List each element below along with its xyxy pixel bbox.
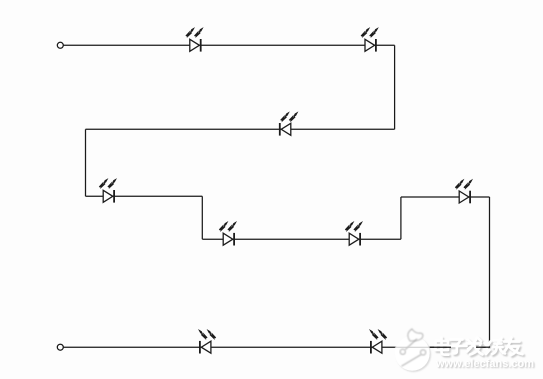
- watermark title 电子发烧友 (stroke skeleton, embossed): [436, 338, 525, 357]
- LED D5: [223, 233, 234, 246]
- watermark url www.elecfans.com: [435, 358, 535, 371]
- terminal top-left: [57, 42, 63, 48]
- wire V5 corner stub: [489, 346, 491, 347]
- LED D8: [200, 341, 211, 354]
- wire row3b: [401, 196, 490, 198]
- wire row5: [63, 346, 489, 348]
- LED D6: [349, 233, 360, 246]
- wire vertical V2: [85, 129, 87, 196]
- watermark filter: [0, 0, 1, 1]
- wire vertical V4: [400, 197, 402, 239]
- LED D1: [190, 39, 201, 52]
- watermark logo circle: [395, 329, 431, 372]
- svg-text:www.elecfans.com: www.elecfans.com: [435, 358, 534, 370]
- wire row5 visible segment through glyph 电: [430, 346, 451, 348]
- wire vertical V3: [201, 196, 203, 239]
- wire row4: [202, 238, 401, 240]
- wire vertical V1: [394, 45, 396, 129]
- LED D4: [103, 190, 114, 203]
- LED D3: [280, 123, 291, 136]
- LED D7: [459, 191, 470, 204]
- wire vertical V5: [489, 197, 491, 347]
- LED D9: [371, 341, 382, 354]
- wire row1: [63, 44, 395, 46]
- wire row5 visible segment over watermark: [476, 346, 490, 348]
- wire row2: [86, 128, 395, 130]
- terminal bottom-left: [57, 344, 63, 350]
- LED D2: [365, 39, 376, 52]
- wire row3a: [86, 195, 203, 197]
